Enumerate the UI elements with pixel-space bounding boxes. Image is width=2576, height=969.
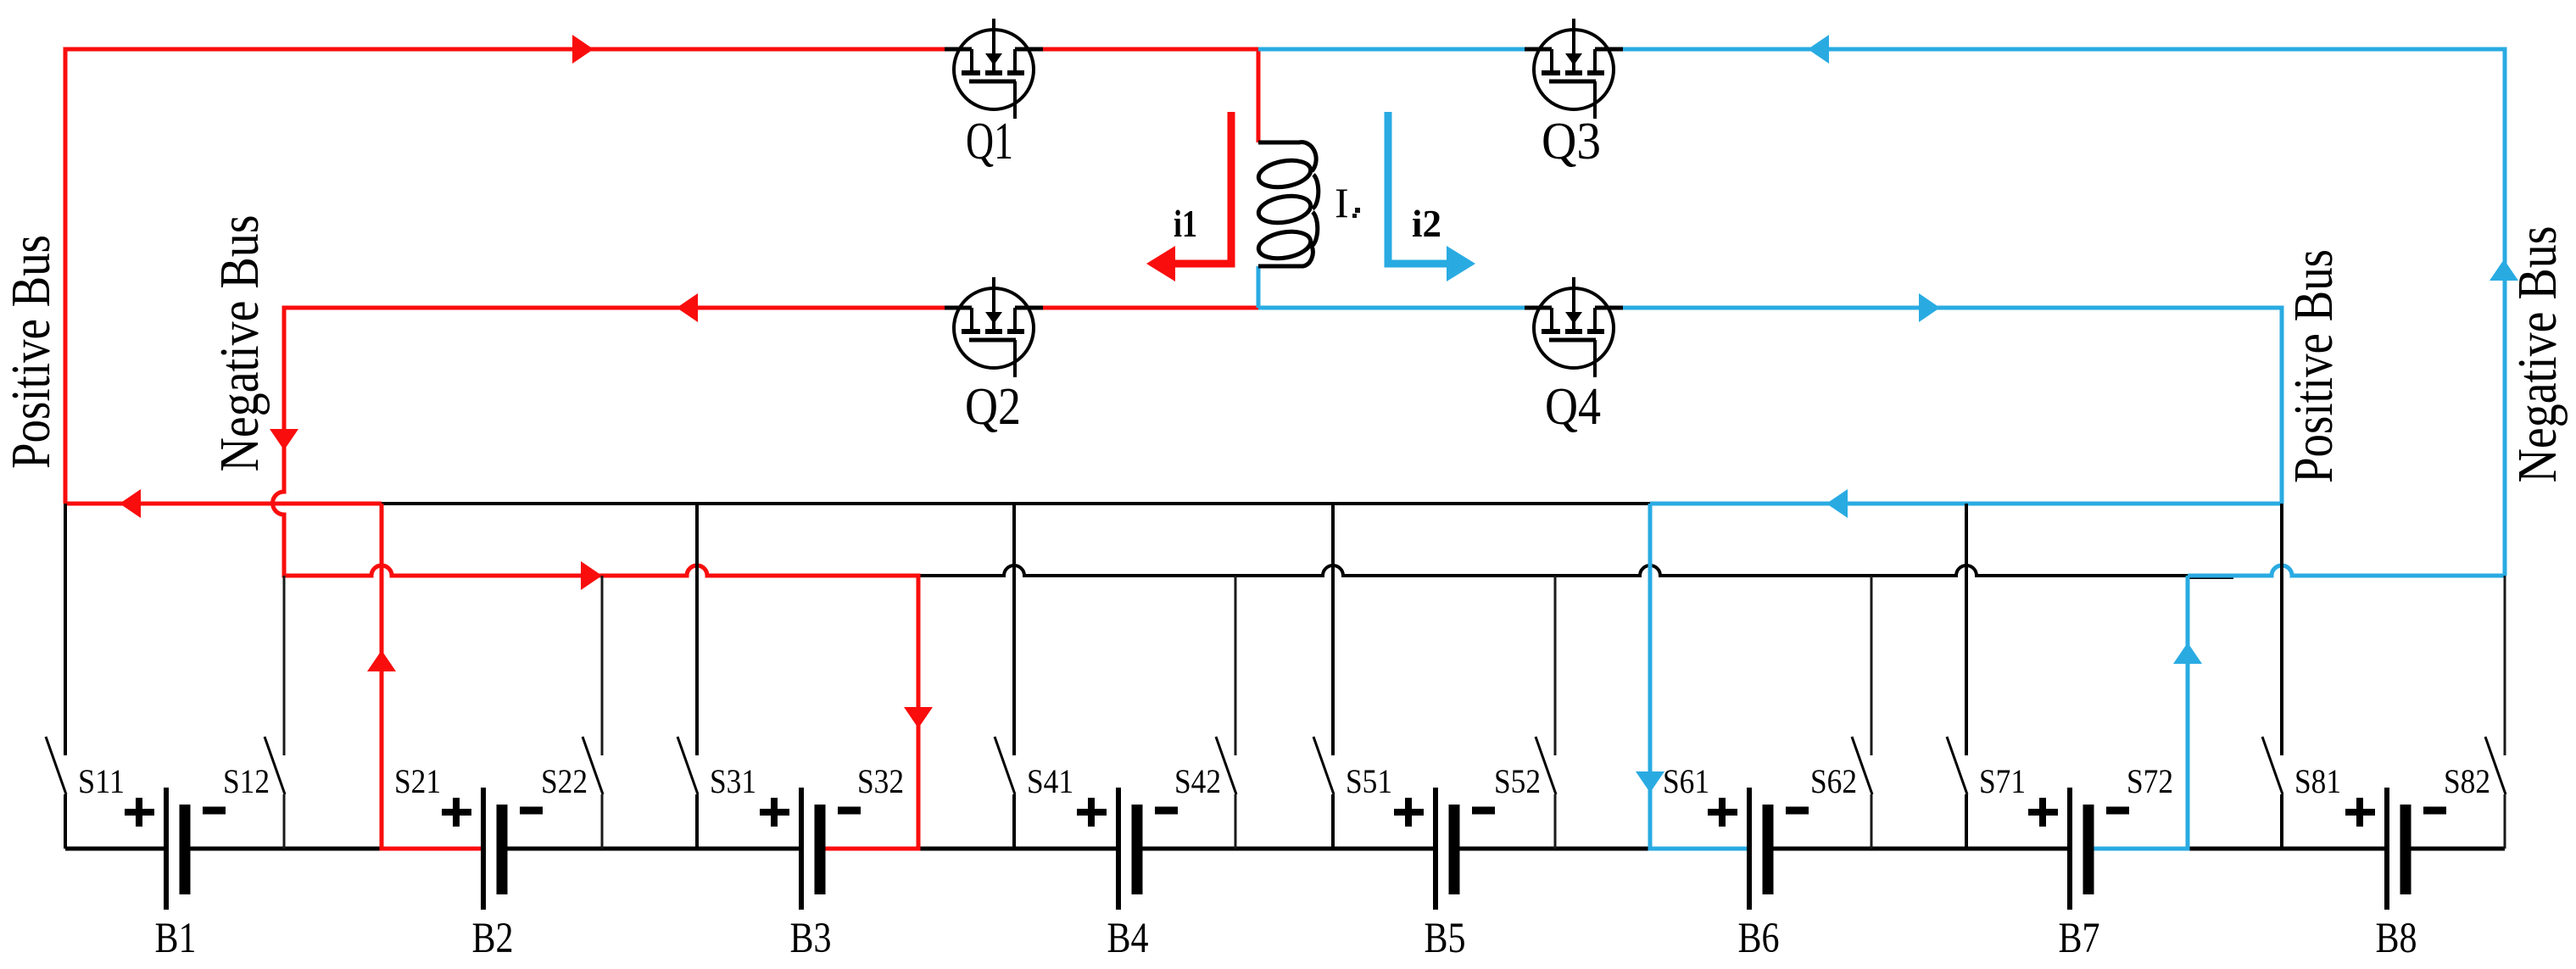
svg-text:S52: S52 xyxy=(1494,762,1541,800)
svg-text:Q3: Q3 xyxy=(1542,113,1601,170)
switch S42 (connects second bus to battery string) xyxy=(1216,576,1236,849)
wire S61 closed-switch branch + battery wire to B6 (blue) xyxy=(1650,504,1749,849)
wire battery string (black segments) xyxy=(65,847,2505,851)
wire top bus blue section xyxy=(1650,502,2282,506)
battery B4 xyxy=(1077,788,1178,910)
battery B8 xyxy=(2345,788,2446,910)
switch S82 (connects second bus to battery string) xyxy=(2485,576,2506,849)
transistor Q2 (MOSFET symbol) xyxy=(945,277,1043,377)
svg-text:Positive Bus: Positive Bus xyxy=(0,235,62,469)
svg-text:S42: S42 xyxy=(1174,762,1221,800)
svg-text:S71: S71 xyxy=(1979,762,2026,800)
svg-text:Negative Bus: Negative Bus xyxy=(209,215,270,472)
svg-text:i1: i1 xyxy=(1174,203,1197,245)
arrowhead red right on second bus xyxy=(581,561,602,590)
switch S62 (connects second bus to battery string) xyxy=(1852,576,1872,849)
svg-text:S51: S51 xyxy=(1346,762,1392,800)
battery B3 xyxy=(760,788,861,910)
svg-text:S31: S31 xyxy=(710,762,756,800)
wire top wire right of inductor tap to Q3 (blue) xyxy=(1258,47,1525,52)
arrowhead red up on S21 branch xyxy=(367,650,396,671)
transistor Q4 (MOSFET symbol) xyxy=(1525,277,1623,377)
arrowhead blue left on top wire xyxy=(1808,35,1829,64)
wire bottom wire right of Q4 + positive bus right vertical (blue) xyxy=(1623,308,2282,504)
svg-text:S82: S82 xyxy=(2444,762,2490,800)
wire bottom wire left of Q2 + negative bus drop with hop over top bus + second bus red + S32 branch + battery wire into B3 (red path) xyxy=(273,308,945,849)
wire top bus red section with red arrow xyxy=(65,502,382,506)
switch S71 (connects top bus to battery string) xyxy=(1947,504,1967,849)
arrowhead blue down on S61 branch xyxy=(1636,771,1664,793)
svg-text:B7: B7 xyxy=(2059,915,2100,962)
wire second bus blue section with hop over S81 vertical xyxy=(2188,565,2505,576)
wire top wire right of Q3 + negative bus right vertical (blue) xyxy=(1623,49,2505,576)
svg-text:B4: B4 xyxy=(1107,915,1149,962)
wire top bus (black middle section) xyxy=(382,502,1650,505)
svg-text:S41: S41 xyxy=(1027,762,1073,800)
battery B7 xyxy=(2028,788,2129,910)
arrowhead red down on S32 branch xyxy=(904,707,933,728)
arrowhead blue left on top bus xyxy=(1826,489,1848,518)
svg-text:S12: S12 xyxy=(223,762,270,800)
switch S11 (connects top bus to battery string) xyxy=(46,504,66,849)
svg-text:B1: B1 xyxy=(155,915,197,962)
svg-text:i2: i2 xyxy=(1412,203,1441,245)
wire S21 closed-switch branch + battery wire to B2 (red) xyxy=(382,504,483,849)
svg-text:Negative Bus: Negative Bus xyxy=(2506,226,2568,483)
switch S22 (connects second bus to battery string) xyxy=(583,576,603,849)
arrowhead blue up on right negative bus xyxy=(2490,259,2518,281)
svg-text:S32: S32 xyxy=(857,762,904,800)
svg-text:S72: S72 xyxy=(2127,762,2173,800)
switch S81 (connects top bus to battery string) xyxy=(2262,504,2283,849)
wire positive bus left vertical + top wire left (red path) xyxy=(65,49,945,504)
inductor bottom lead (blue) xyxy=(1257,266,1261,308)
transistor Q3 (MOSFET symbol) xyxy=(1525,19,1623,119)
svg-text:S11: S11 xyxy=(78,762,125,800)
arrowhead red left on bottom wire xyxy=(677,293,698,322)
current arrow i1 (thick red) xyxy=(1175,112,1231,264)
svg-text:S22: S22 xyxy=(541,762,588,800)
svg-text:Q1: Q1 xyxy=(966,113,1013,170)
switch S12 (connects second bus to battery string) xyxy=(265,576,285,849)
svg-text:B2: B2 xyxy=(472,915,514,962)
svg-text:Q4: Q4 xyxy=(1545,378,1601,436)
svg-text:S21: S21 xyxy=(394,762,441,800)
svg-text:B6: B6 xyxy=(1738,915,1780,962)
battery B6 xyxy=(1708,788,1809,910)
svg-text:B8: B8 xyxy=(2376,915,2417,962)
wire second bus (black middle section, hops over S41 S51 S61 S71 verticals) xyxy=(918,565,2188,576)
svg-text:Q2: Q2 xyxy=(965,378,1021,436)
battery B2 xyxy=(442,788,543,910)
wire bottom wire blue between inductor tap and Q4 xyxy=(1258,306,1525,310)
battery B5 xyxy=(1394,788,1495,910)
arrowhead red down on negative bus drop xyxy=(270,429,298,450)
current arrow i2 (thick blue) xyxy=(1388,112,1447,264)
svg-text:I: I xyxy=(1335,179,1349,226)
arrowhead red right on top wire xyxy=(572,35,594,64)
transistor Q1 (MOSFET symbol) xyxy=(945,19,1043,119)
wire top wire between Q1 and inductor tap (red) + inductor top lead xyxy=(1043,49,1258,142)
svg-text:Positive Bus: Positive Bus xyxy=(2283,249,2345,483)
svg-text:B5: B5 xyxy=(1425,915,1466,962)
arrowhead red left on top bus xyxy=(120,489,141,518)
battery B1 xyxy=(125,788,226,910)
svg-text:S81: S81 xyxy=(2294,762,2341,800)
wire S72 closed-switch branch + battery wire from B7 (blue) xyxy=(2088,576,2188,849)
arrowhead blue right on bottom wire xyxy=(1919,293,1940,322)
svg-text:S62: S62 xyxy=(1810,762,1857,800)
switch S41 (connects top bus to battery string) xyxy=(995,504,1015,849)
wire bottom wire between inductor tap and Q2 (red) xyxy=(1043,306,1258,310)
inductor L (coil) xyxy=(1257,142,1319,266)
wire second bus black underlay below blue joint xyxy=(2188,576,2233,579)
svg-text:B3: B3 xyxy=(790,915,832,962)
switch S31 (connects top bus to battery string) xyxy=(677,504,698,849)
arrowhead blue up on S72 branch xyxy=(2173,643,2202,664)
switch S51 (connects top bus to battery string) xyxy=(1313,504,1334,849)
svg-text:S61: S61 xyxy=(1663,762,1709,800)
switch S52 (connects second bus to battery string) xyxy=(1536,576,1556,849)
